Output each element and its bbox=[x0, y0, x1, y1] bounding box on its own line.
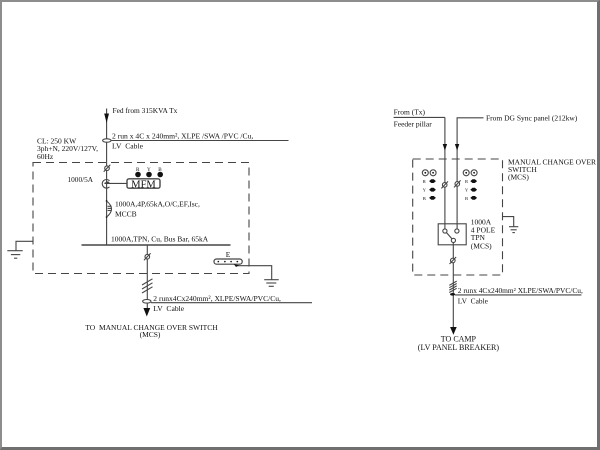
cable marker ellipse (camp cable) bbox=[450, 293, 455, 296]
svg-text:From (Tx): From (Tx) bbox=[394, 108, 426, 117]
label CL: 250 KW 3ph+N 220V/127V 60Hz bbox=[37, 136, 98, 161]
svg-text:R: R bbox=[465, 179, 469, 184]
enclosure main LV panel (dashed) bbox=[33, 163, 249, 274]
svg-text:(LV PANEL BREAKER): (LV PANEL BREAKER) bbox=[418, 343, 500, 352]
wire earth bar to ground bbox=[234, 264, 272, 280]
label Fed from 315KVA Tx bbox=[113, 106, 178, 115]
wire MCS enclosure to ground bbox=[503, 217, 514, 227]
arrow DG feed direction bbox=[455, 144, 459, 151]
label E earth bar bbox=[226, 250, 231, 259]
label MANUAL CHANGE OVER SWITCH (MCS) bbox=[508, 157, 596, 181]
cable marker ellipse (incoming LV cable) bbox=[103, 139, 111, 142]
label 2 run x 4C x 240mm2 XLPE/SWA/PVC/Cu bbox=[112, 132, 253, 141]
label TO CAMP (LV PANEL BREAKER) bbox=[418, 334, 500, 352]
label From DG Sync panel (212kw) bbox=[486, 113, 578, 122]
svg-text:(MCS): (MCS) bbox=[140, 330, 161, 339]
label LV Cable outgoing bbox=[153, 304, 184, 313]
label 1000/5A CT ratio bbox=[68, 175, 94, 184]
wire Tx feeder vertical bbox=[444, 117, 446, 229]
wire incoming feeder vertical (left diagram) bbox=[106, 109, 108, 246]
isolator link Tx line bbox=[441, 181, 448, 188]
wire cable callout line bbox=[111, 140, 289, 142]
arrow feeder direction bbox=[104, 114, 109, 124]
label 1000A 4P 65kA O/C EF Isc MCCB bbox=[115, 200, 200, 219]
ground earth electrode (right of left panel) bbox=[264, 280, 279, 287]
cable slashes 3-phase marks (MCS outgoing) bbox=[449, 281, 456, 292]
cable slashes 3-phase marks (left outgoing) bbox=[142, 279, 153, 293]
svg-text:2 run x 4C x 240mm², XLPE /SWA: 2 run x 4C x 240mm², XLPE /SWA /PVC /Cu, bbox=[112, 132, 253, 141]
svg-text:B: B bbox=[423, 196, 426, 201]
arrow to camp bbox=[450, 327, 457, 335]
label TO MANUAL CHANGE OVER SWITCH (MCS) bbox=[85, 323, 218, 339]
label 2 runx 4Cx240mm2 XLPE/SWA/PVC/Cu (camp) bbox=[458, 286, 583, 295]
switch poles and lever bbox=[443, 229, 459, 243]
breaker MCCB 1000A bbox=[106, 200, 112, 218]
svg-text:(MCS): (MCS) bbox=[471, 241, 492, 250]
indicator lamps R Y B bbox=[135, 167, 163, 177]
wire CT to MFM bbox=[107, 182, 127, 184]
svg-text:LV Cable: LV Cable bbox=[458, 296, 489, 305]
svg-text:60Hz: 60Hz bbox=[37, 152, 54, 161]
ground MCS earth bbox=[509, 227, 518, 233]
svg-text:R: R bbox=[423, 179, 427, 184]
indicator lamps group Tx side bbox=[422, 170, 436, 201]
svg-text:E: E bbox=[226, 250, 231, 259]
label LV Cable camp bbox=[458, 296, 489, 305]
bus bar 1000A TPN bbox=[82, 244, 231, 246]
wire outgoing drop from bus bbox=[146, 245, 148, 308]
isolator link DG line bbox=[454, 180, 461, 187]
svg-text:Feeder pillar: Feeder pillar bbox=[394, 119, 433, 128]
svg-text:2 runx 4Cx240mm² XLPE/SWA/PVC/: 2 runx 4Cx240mm² XLPE/SWA/PVC/Cu, bbox=[458, 286, 583, 295]
current transformer CT1 bbox=[102, 180, 109, 189]
ground panel earth (left) bbox=[7, 251, 22, 259]
wire cable callout line (outgoing) bbox=[151, 302, 312, 304]
svg-text:LV Cable: LV Cable bbox=[153, 304, 184, 313]
svg-text:2 runx4Cx240mm², XLPE/SWA/PVC/: 2 runx4Cx240mm², XLPE/SWA/PVC/Cu, bbox=[153, 294, 281, 303]
label From (Tx) Feeder pillar bbox=[394, 108, 433, 129]
label 2 runx4Cx240mm2 XLPE/SWA/PVC/Cu bbox=[153, 294, 281, 303]
arrow Tx feed direction bbox=[443, 144, 447, 151]
svg-text:1000/5A: 1000/5A bbox=[68, 175, 94, 184]
arrow to MCS bbox=[143, 308, 150, 317]
cable marker ellipse (outgoing LV cable) bbox=[143, 300, 151, 304]
indicator lamps group DG side bbox=[463, 170, 477, 201]
enclosure MCS (dashed) bbox=[413, 159, 503, 275]
earth bar E bbox=[214, 259, 242, 264]
svg-text:Y: Y bbox=[423, 188, 427, 193]
label 1000A TPN Cu Bus Bar 65kA bbox=[111, 235, 209, 244]
meter MFM (multi-function meter) bbox=[127, 179, 160, 191]
isolator link (circle-slash) outgoing bbox=[144, 253, 151, 260]
svg-text:Y: Y bbox=[465, 188, 469, 193]
svg-text:LV Cable: LV Cable bbox=[112, 142, 144, 151]
svg-text:(MCS): (MCS) bbox=[508, 172, 529, 181]
isolator link MCS outgoing bbox=[450, 257, 457, 264]
wire to panel ground bbox=[16, 241, 33, 250]
wire DG sync horizontal bbox=[457, 118, 483, 229]
switch changeover 4-pole box bbox=[438, 224, 466, 245]
svg-text:1000A,4P,65kA,O/C,EF,Isc,: 1000A,4P,65kA,O/C,EF,Isc, bbox=[115, 200, 200, 209]
label 1000A 4 POLE TPN (MCS) bbox=[471, 218, 496, 251]
wire From Tx underline bbox=[394, 116, 445, 118]
wire cable callout (camp cable) bbox=[455, 294, 581, 296]
svg-text:From DG Sync panel (212kw): From DG Sync panel (212kw) bbox=[486, 113, 578, 122]
wire MCS outgoing bbox=[452, 243, 454, 328]
label LV Cable bbox=[112, 142, 144, 151]
svg-text:Fed from 315KVA Tx: Fed from 315KVA Tx bbox=[113, 106, 178, 115]
svg-text:B: B bbox=[465, 196, 468, 201]
isolator link (circle-slash) on incoming bbox=[104, 165, 111, 172]
svg-text:MCCB: MCCB bbox=[115, 210, 137, 219]
svg-text:1000A,TPN, Cu, Bus Bar, 65kA: 1000A,TPN, Cu, Bus Bar, 65kA bbox=[111, 235, 209, 244]
svg-text:MFM: MFM bbox=[131, 180, 156, 191]
